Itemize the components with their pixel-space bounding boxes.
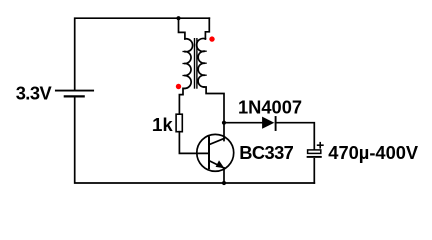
diode cathode bar <box>275 117 277 130</box>
diode D1 1N4007 triangle <box>262 117 274 129</box>
node junction top (battery + / primary) <box>176 16 180 20</box>
wire collector node to diode anode <box>224 122 262 124</box>
capacitor C1 positive plate (box) <box>308 150 321 154</box>
transistor emitter diagonal <box>209 161 224 169</box>
label 1k serif foot <box>153 130 159 131</box>
transistor collector diagonal <box>209 139 224 145</box>
battery BT1 3.3V <box>56 91 93 97</box>
wire secondary top lead with jog <box>205 18 209 39</box>
transistor emitter arrowhead <box>216 160 225 168</box>
transistor Q1 BC337 circle <box>197 134 234 171</box>
transistor base bar <box>208 137 210 168</box>
svg-text:1k: 1k <box>152 114 173 135</box>
primary winding cusp nubs <box>183 51 184 53</box>
wire left rail battery negative to bottom <box>75 97 315 183</box>
resistor R1 1k body <box>176 114 182 132</box>
wire emitter to ground rail <box>223 168 225 183</box>
node emitter/rail junction <box>222 181 226 185</box>
phase dot secondary (red) <box>209 36 214 41</box>
transformer T1 secondary winding (right) <box>197 38 206 87</box>
wire diode to capacitor <box>276 123 315 150</box>
secondary winding cusp nubs <box>205 50 206 52</box>
svg-text:BC337: BC337 <box>239 142 293 163</box>
node collector/diode junction <box>222 121 226 125</box>
wire resistor to base <box>179 132 208 154</box>
wire primary bottom staircase to resistor <box>179 88 184 114</box>
svg-text:3.3V: 3.3V <box>16 83 53 104</box>
transformer core lines <box>194 39 196 88</box>
svg-text:1N4007: 1N4007 <box>238 96 302 117</box>
wire secondary bottom to collector node <box>204 87 224 141</box>
label 1N4007 serif foot <box>240 112 246 113</box>
transformer T1 primary winding (left) <box>184 39 192 89</box>
wire capacitor to ground rail <box>313 159 315 183</box>
wire top rail from battery to transformer <box>75 18 210 90</box>
capacitor plus sign <box>318 143 323 148</box>
svg-text:470µ-400V: 470µ-400V <box>328 142 419 163</box>
wire primary top lead with jog <box>179 18 185 39</box>
capacitor C1 negative plate <box>308 156 321 158</box>
phase dot primary (red) <box>176 84 181 89</box>
